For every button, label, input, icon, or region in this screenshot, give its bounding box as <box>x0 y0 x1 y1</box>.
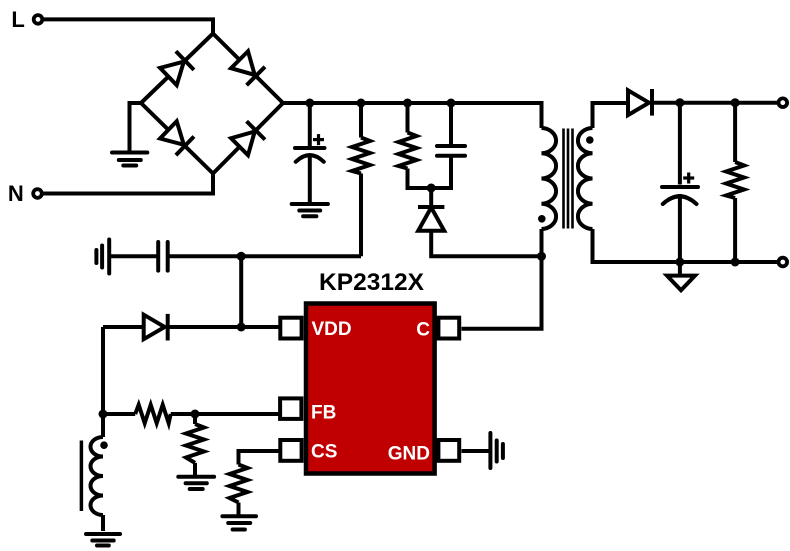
svg-text:VDD: VDD <box>312 319 352 340</box>
resistor R3 output load <box>726 103 744 262</box>
svg-text:L: L <box>11 7 24 32</box>
pin C box <box>438 318 459 339</box>
node VDD junction <box>237 323 246 332</box>
svg-text:KP2312X: KP2312X <box>319 269 425 296</box>
bridge diode D3 (bottom-left edge) <box>159 121 194 156</box>
node aux winding top junction <box>99 410 108 419</box>
pin GND box <box>438 440 459 461</box>
ground input bulk cap <box>292 204 328 216</box>
bridge diode D1 (top-left edge) <box>159 51 194 86</box>
wire Y-cap to R1 bottom <box>168 254 361 258</box>
node FB junction <box>191 410 200 419</box>
wire output ground stub <box>678 262 682 276</box>
wire bridge edge top-left <box>141 34 213 104</box>
bridge diode D4 (bottom-right edge) <box>230 121 265 156</box>
wire aux rail left vertical <box>101 327 105 414</box>
node output return at cap <box>675 258 684 267</box>
diode D7 VDD supply <box>103 314 279 341</box>
node output positive terminal <box>779 98 788 107</box>
node primary bottom junction <box>537 252 546 261</box>
svg-text:C: C <box>416 320 430 341</box>
node output rail at cap <box>675 98 684 107</box>
svg-text:FB: FB <box>311 403 336 424</box>
node N terminal <box>33 189 42 198</box>
inductor L1 core bar <box>80 441 84 512</box>
diode D6 output rectifier <box>628 89 652 116</box>
capacitor C3 output electrolytic <box>662 103 698 262</box>
resistor R5 (FB lower) <box>186 414 204 476</box>
transformer T1 core <box>564 129 573 229</box>
ground output (open triangle) <box>667 276 695 291</box>
node L terminal <box>34 15 43 24</box>
node bus junction at R2 <box>403 99 412 108</box>
transformer T1 secondary winding <box>578 128 593 229</box>
node output rail at resistor <box>731 98 740 107</box>
transformer T1 primary phase dot <box>538 215 546 223</box>
node snubber junction <box>427 184 436 193</box>
wire bridge negative stub <box>130 103 142 151</box>
node bus junction at R1 <box>357 99 366 108</box>
capacitor C4 (Y-cap) <box>158 242 168 271</box>
wire L to bridge top <box>44 19 214 33</box>
wire bridge edge bottom-right <box>213 103 283 174</box>
bridge diode D2 (top-right edge) <box>230 51 265 86</box>
pin FB box <box>280 398 301 419</box>
ground FB divider <box>178 477 214 489</box>
ground GND pin sideways <box>490 433 503 468</box>
capacitor C2 (snubber) <box>431 103 465 188</box>
wire secondary bottom to output return rail <box>593 229 778 262</box>
resistor R6 current sense <box>230 465 248 516</box>
wire secondary top to output diode <box>593 103 629 128</box>
node output return at resistor <box>731 258 740 267</box>
svg-text:GND: GND <box>388 444 430 465</box>
ground Y-cap sideways <box>96 240 109 274</box>
resistor R1 (bus to VDD cap rail) <box>352 103 370 256</box>
wire ground to Y-cap <box>111 254 158 258</box>
wire bridge edge bottom-left <box>141 103 213 174</box>
wire CS to sense resistor <box>239 451 279 465</box>
resistor R2 (snubber) <box>399 103 432 188</box>
inductor L1 phase dot <box>100 441 108 449</box>
wire VDD rail vertical <box>239 256 243 327</box>
op-amp U1 KP2312X controller body <box>306 304 435 474</box>
svg-text:N: N <box>8 181 24 206</box>
ground bridge negative <box>112 153 147 166</box>
node output negative terminal <box>779 258 788 267</box>
pin VDD box <box>280 318 301 339</box>
ground CS resistor <box>222 516 256 529</box>
transformer T1 secondary phase dot <box>586 136 594 144</box>
wire main DC bus <box>283 103 542 128</box>
node VDD rail top junction <box>237 252 246 261</box>
transformer T1 primary winding <box>462 128 557 329</box>
svg-text:CS: CS <box>311 442 337 463</box>
inductor L1 auxiliary winding <box>91 414 104 531</box>
wire GND pin to ground <box>462 449 491 453</box>
node bus junction at input cap <box>305 99 314 108</box>
ground aux winding <box>86 534 120 546</box>
capacitor C1 input bulk electrolytic <box>295 103 325 202</box>
wire bridge edge top-right <box>213 34 283 104</box>
node bus junction at snubber cap <box>447 99 456 108</box>
pin CS box <box>280 440 301 461</box>
wire output positive rail <box>652 101 778 105</box>
resistor R4 (FB upper) horizontal <box>103 405 279 423</box>
wire N to bridge bottom <box>43 174 213 194</box>
diode D5 clamp (pointing up) <box>418 188 542 256</box>
